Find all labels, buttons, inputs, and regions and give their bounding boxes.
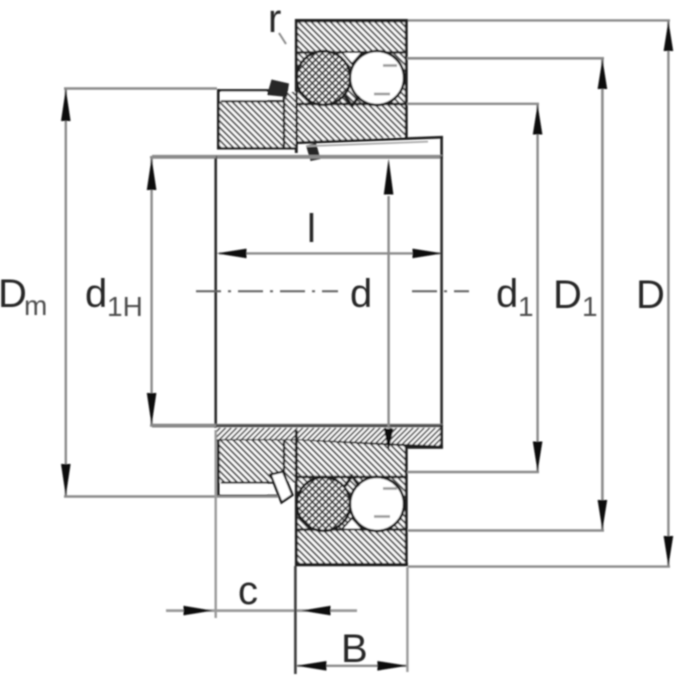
ball, upper right row xyxy=(350,51,404,105)
cage pocket, lower top (dark mark) xyxy=(345,476,359,486)
dimension B (bearing width) xyxy=(297,665,407,667)
dimension c (nut side clearance) xyxy=(166,609,357,612)
svg-text:d: d xyxy=(85,272,107,316)
adapter sleeve taper second line, upper xyxy=(306,142,428,147)
bearing right face, lower xyxy=(405,446,408,566)
centerline (dash-dot) xyxy=(196,290,338,292)
dimension l (sleeve length) xyxy=(219,252,440,254)
extension line, bearing left face (for c and B) xyxy=(294,566,297,674)
lock nut, lower section (hatched) xyxy=(218,440,296,497)
adapter sleeve bore line / taper, upper xyxy=(296,137,443,143)
extension line, bearing right face (for B) xyxy=(406,567,408,672)
svg-text:D: D xyxy=(636,273,665,317)
bearing right face, upper xyxy=(405,19,408,138)
svg-text:m: m xyxy=(24,290,47,321)
locking washer tab, lower (straight tab) xyxy=(271,472,293,503)
extension line, sleeve left edge (for c) xyxy=(214,430,216,618)
cage pocket, upper bottom (dark mark) xyxy=(345,96,359,106)
sleeve left edge xyxy=(214,156,217,428)
shaft surface line, bottom xyxy=(152,424,442,428)
ball, lower right row xyxy=(350,477,404,531)
svg-text:D: D xyxy=(0,272,27,316)
svg-text:1: 1 xyxy=(518,291,534,322)
ball, lower left row (sectioned) xyxy=(297,477,351,531)
dimension D (outside diameter) xyxy=(408,20,670,566)
svg-text:d: d xyxy=(350,272,372,316)
inner ring + outer ring, lower section (hatched block) xyxy=(295,440,408,564)
cage pocket, lower bottom (white notch) xyxy=(342,518,363,530)
dimension d (sleeve bore) xyxy=(387,196,389,428)
svg-text:1H: 1H xyxy=(107,291,143,322)
bearing left face, upper xyxy=(295,19,298,153)
sleeve right edge xyxy=(440,156,443,426)
adapter sleeve lower section (hatched band + flange) xyxy=(215,425,443,449)
dimension d1 xyxy=(407,104,539,472)
dimension Dm (nut outside diameter) xyxy=(64,89,278,497)
svg-text:B: B xyxy=(341,627,368,671)
svg-text:d: d xyxy=(496,272,518,316)
locking washer tab, upper (bent over nut) xyxy=(267,80,289,98)
shaft surface line, top xyxy=(152,155,442,159)
bearing left face, lower xyxy=(295,430,298,566)
adapter sleeve right edge, upper flange xyxy=(440,137,443,160)
svg-text:D: D xyxy=(553,273,582,317)
ball, upper left row (sectioned) xyxy=(297,51,351,105)
locking washer tab, upper (bent into sleeve slot) xyxy=(306,143,321,161)
dimension D1 xyxy=(407,58,604,530)
svg-text:c: c xyxy=(238,569,258,613)
lock nut, upper section (hatched) xyxy=(217,89,296,149)
cage pocket, upper top (white notch) xyxy=(342,52,363,64)
outer ring + inner ring, upper section (hatched block) xyxy=(295,20,408,143)
dimension d1H (sleeve bore at thread end) xyxy=(150,157,216,425)
svg-text:l: l xyxy=(307,207,316,251)
svg-text:1: 1 xyxy=(582,291,598,322)
